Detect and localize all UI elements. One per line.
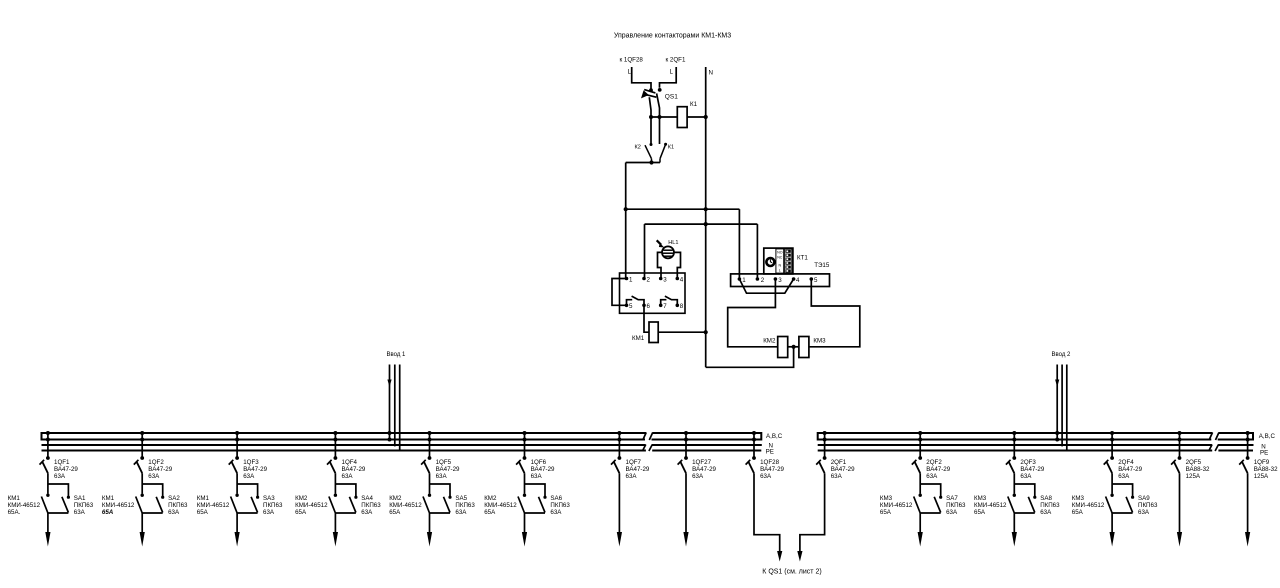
- svg-text:2QF2: 2QF2: [926, 459, 942, 466]
- wire: input1 L down to QS1 left pole: [632, 67, 651, 89]
- wire below 2QF3: [1013, 473, 1015, 493]
- busbar PE: [42, 450, 646, 452]
- svg-text:ВА88-32: ВА88-32: [1254, 466, 1278, 473]
- KT1 terminal 1: [738, 277, 742, 281]
- KT1 dip switch column: [785, 249, 792, 273]
- svg-text:ВА47-29: ВА47-29: [243, 466, 267, 473]
- circuit breaker 1QF27: [678, 431, 688, 473]
- svg-text:63А: 63А: [54, 473, 66, 480]
- wire: KM1 coil to N line: [658, 331, 706, 333]
- contactor contact КМ2: [423, 494, 431, 514]
- svg-text:63А: 63А: [168, 509, 180, 516]
- svg-text:ПКП63: ПКП63: [946, 502, 966, 509]
- switch block S1 (terminals 1-8): [620, 273, 686, 313]
- switch contact SA9: [1126, 496, 1134, 513]
- svg-text:HL1: HL1: [668, 240, 678, 246]
- branch bracket bottom: [1112, 512, 1133, 514]
- svg-text:КМИ-46512: КМИ-46512: [880, 502, 913, 509]
- svg-text:8: 8: [680, 303, 684, 310]
- branch bracket top (SA1): [48, 484, 69, 497]
- svg-text:КМ2: КМ2: [389, 495, 402, 502]
- svg-text:ВА47-29: ВА47-29: [926, 466, 950, 473]
- busbar N: [42, 444, 646, 446]
- wire: KT1 terminal 3 to coil KM2: [728, 279, 778, 347]
- wire: input2 L down to QS1 right pole: [660, 67, 677, 88]
- circuit breaker 1QF2: [134, 431, 144, 473]
- wire below 2QF4: [1111, 473, 1113, 493]
- svg-text:К QS1 (см. лист 2): К QS1 (см. лист 2): [762, 568, 821, 575]
- svg-text:65А: 65А: [295, 509, 307, 516]
- svg-text:SA6: SA6: [550, 495, 562, 502]
- svg-text:К2: К2: [635, 145, 641, 151]
- switch contact SA6: [539, 496, 547, 513]
- branch bracket bottom: [237, 512, 258, 514]
- svg-text:1QF2: 1QF2: [148, 459, 164, 466]
- svg-text:6: 6: [647, 303, 651, 310]
- KT1 upper module: [764, 248, 793, 274]
- svg-text:63А: 63А: [243, 473, 255, 480]
- wire: left pole down to contact K2: [650, 117, 652, 144]
- circuit breaker 1QF3: [229, 431, 239, 473]
- svg-text:КМИ-46512: КМИ-46512: [8, 502, 41, 509]
- branch bracket bottom: [430, 512, 451, 514]
- svg-text:КТ1: КТ1: [797, 255, 808, 262]
- KT1 terminal 5: [810, 277, 814, 281]
- svg-text:65А: 65А: [1072, 509, 1084, 516]
- svg-text:ВА47-29: ВА47-29: [831, 466, 855, 473]
- svg-text:63А: 63А: [1118, 473, 1130, 480]
- svg-text:63А: 63А: [626, 473, 638, 480]
- branch bracket top (SA8): [1014, 484, 1035, 497]
- circuit breaker 1QF7: [611, 431, 621, 473]
- svg-text:L: L: [779, 269, 781, 273]
- switch QS1 (changeover, 2-pole): [641, 88, 662, 117]
- svg-text:ВА47-29: ВА47-29: [1020, 466, 1044, 473]
- svg-text:ВА47-29: ВА47-29: [531, 466, 555, 473]
- lamp HL1 with arrow: [657, 240, 674, 258]
- arrow on Ввод 2: [1055, 380, 1059, 388]
- contactor contact КМ3: [1008, 494, 1016, 514]
- branch bracket bottom: [335, 512, 356, 514]
- svg-text:63А: 63А: [946, 509, 958, 516]
- svg-text:63А: 63А: [760, 473, 772, 480]
- timer block KT1 terminal strip: [731, 274, 830, 287]
- svg-text:65А: 65А: [389, 509, 401, 516]
- contactor coil KM3: [799, 337, 809, 358]
- busbar PE right section: [1218, 450, 1253, 452]
- svg-text:ПКП63: ПКП63: [1138, 502, 1158, 509]
- svg-text:63А: 63А: [831, 473, 843, 480]
- contactor coil KM1: [649, 322, 658, 343]
- terminal 7: [659, 304, 663, 308]
- svg-text:КМ1: КМ1: [632, 335, 645, 342]
- wire below 1QF4: [334, 473, 336, 493]
- svg-text:65А: 65А: [880, 509, 892, 516]
- svg-text:КМ3: КМ3: [813, 338, 826, 345]
- switch contact SA3: [251, 496, 259, 513]
- svg-text:SA1: SA1: [74, 495, 86, 502]
- wire 1QF28 to QS1 arrow: [754, 473, 780, 553]
- contactor coil KM2: [778, 337, 788, 358]
- svg-text:PE: PE: [1260, 449, 1268, 456]
- contact 5-6: [627, 296, 645, 305]
- svg-text:ВА47-29: ВА47-29: [692, 466, 716, 473]
- branch bracket bottom: [920, 512, 941, 514]
- svg-text:NO: NO: [777, 251, 783, 255]
- wire below 1QF3: [236, 473, 238, 493]
- svg-text:КМИ-46512: КМИ-46512: [295, 502, 328, 509]
- branch bracket top (SA6): [525, 484, 546, 497]
- busbar N right section: [1218, 444, 1253, 446]
- svg-text:1QF27: 1QF27: [692, 459, 711, 466]
- svg-text:4: 4: [796, 277, 800, 284]
- svg-text:Ввод 2: Ввод 2: [1052, 352, 1071, 358]
- svg-text:3: 3: [663, 276, 667, 283]
- svg-text:ВА47-29: ВА47-29: [436, 466, 460, 473]
- terminal 5: [625, 304, 629, 308]
- svg-text:SA5: SA5: [455, 495, 467, 502]
- circuit breaker 1QF6: [516, 431, 526, 473]
- svg-text:63А: 63А: [148, 473, 160, 480]
- svg-text:1QF1: 1QF1: [54, 459, 70, 466]
- svg-text:63А: 63А: [926, 473, 938, 480]
- svg-text:7: 7: [663, 303, 667, 310]
- svg-text:КМИ-46512: КМИ-46512: [389, 502, 422, 509]
- terminal 8: [676, 304, 680, 308]
- svg-text:63А: 63А: [1138, 509, 1150, 516]
- svg-text:63А: 63А: [455, 509, 467, 516]
- contactor contact КМ1: [136, 494, 144, 514]
- svg-text:63А: 63А: [263, 509, 275, 516]
- svg-text:NC: NC: [777, 256, 783, 260]
- svg-text:КМ1: КМ1: [8, 495, 21, 502]
- svg-text:63А: 63А: [692, 473, 704, 480]
- svg-text:К1: К1: [690, 101, 698, 108]
- wire: left drop to switch-block terminal 1: [625, 163, 627, 279]
- svg-text:125А: 125А: [1186, 473, 1201, 480]
- wire: contacts common bottom: [626, 162, 660, 164]
- svg-text:ВА88-32: ВА88-32: [1186, 466, 1210, 473]
- outgoing line arrow (1QF9): [1247, 473, 1249, 513]
- svg-text:5: 5: [629, 303, 633, 310]
- circuit breaker 1QF4: [327, 431, 337, 473]
- svg-text:63А: 63А: [436, 473, 448, 480]
- busbar A,B,C (double line): [818, 432, 1213, 441]
- svg-text:1: 1: [629, 276, 633, 283]
- svg-text:ТЭ15: ТЭ15: [814, 262, 830, 269]
- svg-text:63А: 63А: [74, 509, 86, 516]
- outgoing line arrow (1QF3): [236, 513, 238, 538]
- branch bracket top (SA7): [920, 484, 941, 497]
- svg-text:КМ3: КМ3: [1072, 495, 1085, 502]
- busbar N right section: [652, 444, 762, 446]
- svg-text:КМ2: КМ2: [763, 338, 776, 345]
- svg-text:63А: 63А: [550, 509, 562, 516]
- wire: K1 coil to N line: [687, 116, 706, 118]
- wire: horizontal N branch (y=224): [645, 223, 758, 225]
- terminal 2: [642, 277, 646, 281]
- svg-text:Управление контакторами КМ1-КМ: Управление контакторами КМ1-КМ3: [614, 33, 731, 40]
- incoming feed Ввод 2 lines: [1055, 365, 1067, 452]
- outgoing line arrow (1QF27): [685, 473, 687, 513]
- svg-text:N: N: [778, 264, 781, 268]
- circuit breaker 1QF9: [1239, 431, 1249, 473]
- svg-text:КМИ-46512: КМИ-46512: [197, 502, 230, 509]
- switch contact SA7: [934, 496, 942, 513]
- circuit breaker 2QF5: [1171, 431, 1181, 473]
- svg-text:КМ1: КМ1: [197, 495, 210, 502]
- wire: drop to switch-block terminal 2: [644, 224, 646, 278]
- svg-text:ПКП63: ПКП63: [361, 502, 381, 509]
- svg-text:1QF6: 1QF6: [531, 459, 547, 466]
- outgoing line arrow (2QF4): [1111, 513, 1113, 538]
- svg-text:ВА47-29: ВА47-29: [342, 466, 366, 473]
- relay coil K1: [677, 107, 687, 128]
- switch contact SA4: [349, 496, 357, 513]
- svg-text:SA8: SA8: [1040, 495, 1052, 502]
- feeder 2QF1 (to QS1): [816, 431, 826, 473]
- switch contact SA5: [444, 496, 452, 513]
- svg-text:ПКП63: ПКП63: [455, 502, 475, 509]
- KT1 terminal 3: [774, 277, 778, 281]
- branch bracket top (SA3): [237, 484, 258, 497]
- svg-text:63А: 63А: [1020, 473, 1032, 480]
- wire: right pole down to contact K1: [659, 117, 661, 144]
- branch bracket top (SA4): [335, 484, 356, 497]
- wire: drop to KT1 terminal 1: [738, 209, 740, 279]
- svg-text:QS1: QS1: [665, 93, 678, 100]
- svg-text:1QF28: 1QF28: [760, 459, 779, 466]
- terminal 6: [642, 304, 646, 308]
- svg-text:ПКП63: ПКП63: [263, 502, 283, 509]
- svg-text:ВА47-29: ВА47-29: [54, 466, 78, 473]
- wire: lamp bracket to terminals 3 and 4: [658, 252, 663, 278]
- circuit breaker 2QF3: [1006, 431, 1016, 473]
- wire 2QF1 to QS1 arrow: [800, 473, 825, 553]
- svg-text:КМ2: КМ2: [295, 495, 308, 502]
- svg-text:63А: 63А: [531, 473, 543, 480]
- svg-text:КМИ-46512: КМИ-46512: [484, 502, 517, 509]
- svg-text:SA9: SA9: [1138, 495, 1150, 502]
- bus break marks: [642, 433, 652, 452]
- KT1 terminal 4: [792, 277, 796, 281]
- branch bracket bottom: [142, 512, 163, 514]
- svg-text:3: 3: [778, 277, 782, 284]
- svg-text:1QF3: 1QF3: [243, 459, 259, 466]
- svg-text:5: 5: [814, 277, 818, 284]
- switch contact SA2: [156, 496, 164, 513]
- contactor contact КМ2: [329, 494, 337, 514]
- svg-text:A,B,C: A,B,C: [1259, 433, 1276, 440]
- wire: horizontal L-bus of control (y=209): [626, 208, 740, 210]
- outgoing line arrow (2QF3): [1013, 513, 1015, 538]
- svg-text:КМ3: КМ3: [880, 495, 893, 502]
- svg-text:ВА47-29: ВА47-29: [760, 466, 784, 473]
- svg-text:N: N: [709, 70, 713, 77]
- contactor contact КМ1: [231, 494, 239, 514]
- svg-text:63А: 63А: [342, 473, 354, 480]
- outgoing line arrow (1QF2): [141, 513, 143, 538]
- svg-text:К1: К1: [668, 145, 674, 151]
- bus break marks: [1209, 433, 1219, 452]
- busbar A,B,C right section: [1218, 432, 1253, 441]
- svg-text:2QF5: 2QF5: [1186, 459, 1202, 466]
- svg-text:ПКП63: ПКП63: [1040, 502, 1060, 509]
- contactor contact КМ3: [1106, 494, 1114, 514]
- svg-text:65А.: 65А.: [8, 509, 21, 516]
- svg-text:PE: PE: [766, 448, 774, 455]
- outgoing line arrow (1QF1): [47, 513, 49, 538]
- circuit breaker 1QF5: [421, 431, 431, 473]
- contact K2 (NO): [645, 143, 653, 163]
- branch bracket top (SA2): [142, 484, 163, 497]
- switch contact SA8: [1028, 496, 1036, 513]
- svg-text:A,B,C: A,B,C: [766, 433, 783, 440]
- busbar N: [818, 444, 1212, 446]
- outgoing line arrow (1QF7): [618, 473, 620, 513]
- svg-text:2QF4: 2QF4: [1118, 459, 1134, 466]
- svg-text:ПКП63: ПКП63: [550, 502, 570, 509]
- outgoing line arrow (1QF4): [334, 513, 336, 538]
- svg-text:63А: 63А: [1040, 509, 1052, 516]
- svg-text:SA7: SA7: [946, 495, 958, 502]
- svg-text:КМ3: КМ3: [974, 495, 987, 502]
- wire below 1QF1: [47, 473, 49, 493]
- wire below 1QF6: [524, 473, 526, 493]
- svg-text:1QF5: 1QF5: [436, 459, 452, 466]
- switch contact SA1: [62, 496, 70, 513]
- svg-text:2QF3: 2QF3: [1020, 459, 1036, 466]
- svg-text:1QF4: 1QF4: [342, 459, 358, 466]
- svg-text:к 2QF1: к 2QF1: [666, 57, 686, 64]
- svg-text:2: 2: [647, 276, 651, 283]
- svg-text:SA4: SA4: [361, 495, 373, 502]
- svg-text:SA2: SA2: [168, 495, 180, 502]
- arrow on Ввод 1: [387, 380, 391, 388]
- svg-text:КМИ-46512: КМИ-46512: [102, 502, 135, 509]
- contactor contact КМ3: [914, 494, 922, 514]
- svg-text:к 1QF28: к 1QF28: [620, 57, 644, 64]
- svg-text:ПКП63: ПКП63: [74, 502, 94, 509]
- branch bracket bottom: [1014, 512, 1035, 514]
- terminal 4: [676, 277, 680, 281]
- busbar PE: [818, 450, 1212, 452]
- outgoing line arrow (1QF6): [524, 513, 526, 538]
- contactor contact КМ1: [41, 494, 49, 514]
- wire: QS1 output to relay coil K1: [651, 116, 677, 118]
- branch bracket top (SA9): [1112, 484, 1133, 497]
- branch bracket top (SA5): [430, 484, 451, 497]
- contactor contact КМ2: [518, 494, 526, 514]
- outgoing line arrow (2QF5): [1179, 473, 1181, 513]
- wire: N vertical line: [705, 67, 707, 367]
- svg-text:1QF9: 1QF9: [1254, 459, 1270, 466]
- circuit breaker 2QF2: [912, 431, 922, 473]
- svg-text:ВА47-29: ВА47-29: [626, 466, 650, 473]
- contact 7-8: [661, 296, 678, 305]
- circuit breaker 1QF1: [40, 431, 50, 473]
- wire: KT1 terminal 5 to coil KM3: [809, 279, 860, 347]
- terminal 1: [625, 277, 629, 281]
- svg-text:65А: 65А: [197, 509, 209, 516]
- circuit breaker 2QF4: [1104, 431, 1114, 473]
- svg-text:КМ2: КМ2: [484, 495, 497, 502]
- wire: bridge KT1 terminals 1-4: [739, 279, 793, 293]
- svg-text:КМ1: КМ1: [102, 495, 115, 502]
- svg-text:ПКП63: ПКП63: [168, 502, 188, 509]
- wire: KM2-KM3 common to N: [788, 346, 799, 348]
- terminal 3: [659, 277, 663, 281]
- svg-text:65А: 65А: [974, 509, 986, 516]
- wire below 1QF2: [141, 473, 143, 493]
- outgoing line arrow (1QF5): [429, 513, 431, 538]
- svg-text:ВА47-29: ВА47-29: [148, 466, 172, 473]
- wire below 1QF5: [429, 473, 431, 493]
- svg-text:1: 1: [742, 277, 746, 284]
- wire below 2QF2: [919, 473, 921, 493]
- wire: drop to KT1 terminal 2: [756, 224, 758, 279]
- jumper terminals 1-5: [612, 279, 627, 306]
- feeder 1QF28 (to QS1): [746, 431, 756, 473]
- outgoing line arrow (2QF2): [919, 513, 921, 538]
- busbar PE right section: [652, 450, 761, 452]
- branch bracket bottom: [525, 512, 546, 514]
- KT1 terminal 2: [756, 277, 760, 281]
- svg-text:63А: 63А: [361, 509, 373, 516]
- svg-text:2QF1: 2QF1: [831, 459, 847, 466]
- contact K1 (NO): [660, 143, 667, 163]
- svg-text:1QF7: 1QF7: [626, 459, 642, 466]
- svg-text:КМИ-46512: КМИ-46512: [974, 502, 1007, 509]
- wire: terminal 6 to contactor coil KM1: [644, 305, 649, 332]
- svg-text:SA3: SA3: [263, 495, 275, 502]
- branch bracket bottom: [48, 512, 69, 514]
- svg-text:65А: 65А: [484, 509, 496, 516]
- svg-text:ВА47-29: ВА47-29: [1118, 466, 1142, 473]
- svg-text:L: L: [670, 69, 674, 76]
- busbar A,B,C right section: [652, 432, 762, 441]
- svg-text:125А: 125А: [1254, 473, 1269, 480]
- svg-text:2: 2: [761, 277, 765, 284]
- svg-text:Ввод 1: Ввод 1: [387, 352, 406, 358]
- svg-text:КМИ-46512: КМИ-46512: [1072, 502, 1105, 509]
- svg-text:65А: 65А: [102, 509, 114, 516]
- busbar A,B,C (double line): [42, 432, 647, 441]
- svg-text:4: 4: [680, 276, 684, 283]
- incoming feed Ввод 1 lines: [388, 365, 400, 452]
